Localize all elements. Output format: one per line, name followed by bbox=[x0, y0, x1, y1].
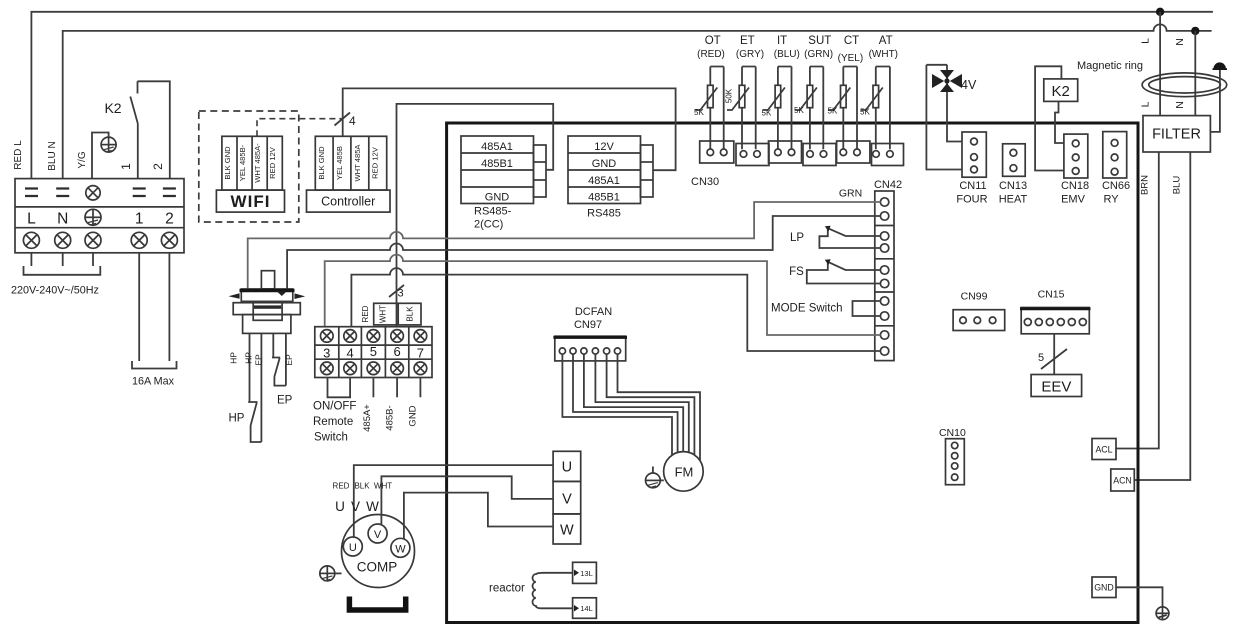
connector CN30 housing bbox=[700, 141, 904, 166]
wire BLU (FILTER to ACN) bbox=[1134, 152, 1190, 480]
thermistor OT 5K bbox=[694, 67, 724, 150]
svg-text:L: L bbox=[1140, 38, 1152, 44]
wire RED L (top left to top right) bbox=[31, 12, 1213, 179]
wire terminal 2 down bbox=[168, 253, 170, 361]
thermistor CT 5K bbox=[828, 67, 858, 150]
svg-text:5K: 5K bbox=[794, 106, 804, 115]
earth symbol (COMP) bbox=[320, 566, 342, 581]
svg-text:3: 3 bbox=[323, 345, 330, 360]
svg-text:2(CC): 2(CC) bbox=[474, 219, 503, 231]
terminal strip screws bottom bbox=[321, 362, 427, 375]
wire V to compressor bbox=[381, 476, 553, 525]
svg-text:GND: GND bbox=[485, 191, 510, 203]
svg-text:12V: 12V bbox=[594, 141, 614, 153]
svg-text:SUT: SUT bbox=[808, 35, 831, 47]
svg-text:CN99: CN99 bbox=[961, 291, 988, 303]
svg-text:220V-240V~/50Hz: 220V-240V~/50Hz bbox=[11, 285, 99, 297]
terminal V box bbox=[553, 481, 581, 514]
switch EP bbox=[272, 333, 293, 406]
fan wires CN97 to FM bbox=[562, 354, 700, 461]
wire CN15 to EEV bbox=[1053, 334, 1055, 375]
svg-text:HP: HP bbox=[244, 352, 254, 364]
svg-text:EP: EP bbox=[284, 354, 294, 366]
thermistor AT 5K bbox=[860, 67, 890, 150]
pressure switch cap bbox=[240, 289, 295, 301]
sensor labels row bbox=[705, 35, 893, 47]
svg-text:N: N bbox=[57, 211, 68, 228]
svg-text:BLU: BLU bbox=[1172, 176, 1183, 195]
svg-text:RY: RY bbox=[1103, 194, 1119, 206]
svg-text:BLU N: BLU N bbox=[47, 141, 58, 170]
svg-text:CN97: CN97 bbox=[574, 319, 602, 331]
remote terminal strip 3-7 bbox=[315, 327, 432, 378]
svg-text:IT: IT bbox=[777, 35, 787, 47]
svg-text:CN30: CN30 bbox=[691, 176, 719, 188]
connector CN66 bbox=[1102, 132, 1130, 206]
svg-text:Y/G: Y/G bbox=[77, 151, 88, 168]
svg-text:5: 5 bbox=[370, 344, 377, 359]
svg-text:485A1: 485A1 bbox=[588, 175, 620, 187]
pressure switch inner plates bbox=[253, 302, 282, 320]
label RED BLK WHT bbox=[333, 482, 393, 491]
svg-text:Magnetic ring: Magnetic ring bbox=[1077, 60, 1143, 72]
svg-text:RED L: RED L bbox=[13, 140, 24, 170]
svg-text:5K: 5K bbox=[694, 108, 704, 117]
svg-text:RED 12V: RED 12V bbox=[371, 146, 380, 179]
stub wires 485A+ 485B- GND bbox=[373, 378, 420, 398]
svg-text:RED: RED bbox=[333, 482, 350, 491]
svg-text:RS485-: RS485- bbox=[474, 206, 512, 218]
thermistor SUT 5K bbox=[794, 67, 823, 150]
pressure switch body nub bbox=[261, 271, 274, 289]
svg-text:ON/OFF: ON/OFF bbox=[313, 401, 356, 413]
svg-text:EP: EP bbox=[277, 395, 293, 407]
svg-text:MODE Switch: MODE Switch bbox=[771, 303, 843, 315]
svg-text:YEL 485B-: YEL 485B- bbox=[238, 144, 247, 181]
svg-text:485A+: 485A+ bbox=[362, 404, 373, 432]
svg-text:HEAT: HEAT bbox=[999, 194, 1028, 206]
wire BLU N (second top wire with hop over L drop) bbox=[63, 24, 1212, 178]
svg-text:CN11: CN11 bbox=[959, 180, 986, 192]
svg-text:BLK GND: BLK GND bbox=[317, 146, 326, 180]
16A bracket bbox=[132, 361, 177, 369]
wire L drop through magnetic ring to FILTER bbox=[1159, 12, 1161, 116]
wire U to compressor bbox=[354, 465, 553, 537]
terminal block X1 outline bbox=[15, 179, 184, 253]
terminal block clamp bars bbox=[25, 189, 176, 197]
compressor COMP bbox=[342, 515, 415, 588]
thermistor IT 5K bbox=[762, 67, 792, 150]
supply stub wires L N Y/G bbox=[31, 253, 93, 266]
wire K2 loop to terminal 2 bbox=[138, 81, 170, 178]
ON/OFF remote switch jumper terminals 3-4 bbox=[328, 378, 351, 398]
Controller label box bbox=[307, 190, 391, 212]
reactor coil bbox=[532, 573, 572, 609]
wire color tag box RED WHT BLK bbox=[361, 303, 421, 325]
svg-text:5K: 5K bbox=[762, 109, 772, 118]
connector CN42 pins bbox=[880, 198, 888, 355]
svg-text:485B1: 485B1 bbox=[481, 158, 513, 170]
svg-text:50K: 50K bbox=[725, 88, 734, 103]
WIFI label box bbox=[216, 190, 284, 212]
svg-text:OT: OT bbox=[705, 35, 721, 47]
svg-text:U: U bbox=[349, 542, 357, 554]
wire terminal 1 down bbox=[138, 253, 140, 361]
switch LP bbox=[790, 226, 881, 248]
FILTER box U3 bbox=[1143, 116, 1210, 152]
earth symbol (block middle row) bbox=[85, 209, 101, 225]
connector CN42 housing bbox=[875, 191, 894, 361]
terminal Y/G screw (top row) bbox=[86, 186, 100, 200]
svg-text:RS485: RS485 bbox=[587, 208, 621, 220]
svg-text:EEV: EEV bbox=[1041, 379, 1071, 396]
wire K2 to CN18 bbox=[1055, 101, 1064, 143]
svg-text:485B1: 485B1 bbox=[588, 191, 620, 203]
svg-text:CN18: CN18 bbox=[1061, 180, 1089, 192]
wire W to compressor bbox=[404, 493, 553, 539]
svg-text:BLK: BLK bbox=[354, 482, 370, 491]
switch HP (high pressure) bbox=[229, 333, 262, 442]
svg-text:V: V bbox=[351, 499, 360, 514]
svg-text:Controller: Controller bbox=[321, 195, 375, 209]
svg-text:WHT 485A: WHT 485A bbox=[353, 144, 362, 182]
svg-text:L: L bbox=[27, 211, 36, 228]
svg-text:K2: K2 bbox=[104, 100, 121, 116]
junction dot node N bbox=[1191, 27, 1199, 35]
svg-text:W: W bbox=[560, 523, 574, 539]
main control board outline bbox=[447, 123, 1138, 623]
label U V W bbox=[335, 499, 379, 514]
svg-text:14L: 14L bbox=[580, 604, 593, 613]
cable (3 core) terminal6 to RS485-2 bbox=[397, 104, 554, 327]
svg-text:1: 1 bbox=[135, 211, 144, 228]
wire CN42 pin9 to terminal 3 (with hop) bbox=[325, 255, 881, 335]
cable slash 5 bbox=[1038, 349, 1067, 369]
rotated wire labels HP HP EP EP bbox=[229, 352, 294, 366]
magnetic ring bbox=[1142, 73, 1227, 97]
svg-text:RED: RED bbox=[361, 305, 370, 322]
wire GRN CN42 pin1 to pressure switch (with hop) bbox=[248, 202, 881, 290]
svg-text:GND: GND bbox=[592, 158, 617, 170]
svg-text:CN10: CN10 bbox=[939, 427, 966, 439]
label RS485-2(CC) bbox=[474, 206, 512, 231]
cable slash 3 bbox=[389, 285, 404, 300]
connector CN18 bbox=[1061, 134, 1089, 205]
svg-text:GRN: GRN bbox=[839, 188, 862, 200]
compressor mounting bracket bbox=[349, 597, 405, 611]
wire CN42 pin2 to pressure switch (with hop) bbox=[287, 216, 880, 290]
svg-text:7: 7 bbox=[417, 345, 424, 360]
connector CN30 pins bbox=[707, 149, 893, 157]
connector CN97 pins bbox=[559, 348, 620, 354]
svg-text:GND: GND bbox=[1094, 583, 1114, 593]
svg-text:(GRN): (GRN) bbox=[804, 49, 833, 60]
junction dot node L bbox=[1156, 8, 1164, 16]
chassis earth symbol (top right) bbox=[1213, 62, 1228, 69]
thermistor ET 50K bbox=[725, 67, 756, 150]
connector CN99 bbox=[953, 291, 1005, 331]
svg-text:N: N bbox=[1174, 101, 1186, 109]
terminal 14L bbox=[573, 598, 597, 619]
sensor color labels bbox=[697, 49, 898, 64]
dashed wire WIFI to controller cable bbox=[257, 119, 342, 137]
controller cable (4 core) to RS485 bbox=[343, 88, 676, 170]
svg-text:2: 2 bbox=[165, 211, 174, 228]
svg-text:(WHT): (WHT) bbox=[869, 49, 898, 60]
terminal GND box bbox=[1092, 577, 1116, 598]
svg-text:CN13: CN13 bbox=[999, 180, 1027, 192]
svg-text:485B-: 485B- bbox=[385, 405, 396, 430]
svg-text:(GRY): (GRY) bbox=[736, 49, 764, 60]
svg-text:FS: FS bbox=[789, 266, 804, 278]
svg-text:(RED): (RED) bbox=[697, 49, 725, 60]
svg-text:U: U bbox=[335, 499, 345, 514]
svg-text:(BLU): (BLU) bbox=[774, 49, 800, 60]
terminal ACL bbox=[1092, 439, 1116, 460]
connector CN97 housing bbox=[553, 336, 627, 361]
svg-text:BLK: BLK bbox=[406, 306, 415, 322]
svg-text:L: L bbox=[1140, 101, 1152, 107]
connector CN15 bbox=[1020, 289, 1091, 334]
terminal ACN bbox=[1111, 469, 1135, 491]
relay K2 coil box bbox=[1035, 66, 1078, 170]
svg-text:EP: EP bbox=[253, 354, 263, 366]
svg-text:FILTER: FILTER bbox=[1152, 127, 1201, 143]
MODE Switch jumper bbox=[771, 301, 881, 316]
chassis earth (top right) wire from FILTER bbox=[1210, 69, 1220, 132]
supply bracket bbox=[24, 266, 101, 275]
wire N drop through magnetic ring to FILTER bbox=[1194, 31, 1196, 116]
svg-text:3: 3 bbox=[398, 288, 404, 300]
wire BRN (FILTER to ACL) bbox=[1116, 152, 1159, 449]
svg-text:HP: HP bbox=[229, 413, 245, 425]
svg-text:K2: K2 bbox=[1052, 83, 1070, 100]
cable slash 4 bbox=[335, 113, 357, 129]
svg-text:FOUR: FOUR bbox=[956, 194, 987, 206]
RS485-2(CC) pin header bbox=[534, 145, 547, 197]
wire GND to earth bbox=[1116, 587, 1163, 607]
svg-text:4: 4 bbox=[346, 345, 353, 360]
svg-text:ACL: ACL bbox=[1095, 445, 1112, 455]
svg-text:WIFI: WIFI bbox=[231, 192, 271, 211]
terminal numbers 3 4 5 6 7 bbox=[323, 344, 424, 360]
svg-text:reactor: reactor bbox=[489, 583, 525, 595]
terminal strip screws top bbox=[321, 330, 427, 343]
protective earth symbol (Y/G) bbox=[101, 137, 116, 152]
svg-text:ACN: ACN bbox=[1113, 476, 1132, 486]
svg-text:Remote: Remote bbox=[313, 416, 353, 428]
wire Y/G to earth bbox=[92, 133, 109, 179]
svg-text:16A Max: 16A Max bbox=[132, 376, 175, 388]
svg-text:AT: AT bbox=[879, 35, 893, 47]
fan motor FM bbox=[664, 452, 704, 492]
svg-text:U: U bbox=[562, 460, 572, 476]
terminal 13L bbox=[573, 562, 597, 583]
label ON/OFF Remote Switch bbox=[313, 401, 356, 444]
svg-text:V: V bbox=[562, 492, 572, 508]
svg-text:W: W bbox=[395, 543, 406, 555]
RS485-2(CC) connector block bbox=[461, 136, 534, 204]
svg-text:DCFAN: DCFAN bbox=[575, 306, 612, 318]
svg-text:2: 2 bbox=[151, 163, 165, 170]
svg-text:CN42: CN42 bbox=[874, 179, 902, 191]
svg-text:FM: FM bbox=[675, 465, 694, 480]
WIFI connector pins bbox=[222, 136, 282, 190]
switch FS bbox=[789, 259, 880, 283]
terminal U box bbox=[553, 451, 581, 481]
svg-text:485A1: 485A1 bbox=[481, 141, 513, 153]
wire CN42 pin10 to terminal 4 (with hop) bbox=[351, 268, 880, 351]
svg-text:5K: 5K bbox=[828, 107, 838, 116]
svg-text:WHT 485A-: WHT 485A- bbox=[253, 143, 262, 183]
pressure switch middle band bbox=[233, 303, 300, 315]
svg-text:RED 12V: RED 12V bbox=[268, 146, 277, 179]
svg-text:ET: ET bbox=[740, 35, 755, 47]
svg-text:COMP: COMP bbox=[357, 560, 398, 575]
svg-text:V: V bbox=[374, 529, 382, 541]
terminal block screws (bottom row) bbox=[23, 232, 177, 248]
svg-text:W: W bbox=[366, 499, 379, 514]
svg-text:CT: CT bbox=[844, 35, 859, 47]
WIFI module dashed enclosure bbox=[199, 111, 299, 222]
svg-text:LP: LP bbox=[790, 232, 804, 244]
label DCFAN CN97 bbox=[574, 306, 612, 331]
svg-text:WHT: WHT bbox=[374, 482, 392, 491]
svg-text:N: N bbox=[1174, 38, 1186, 46]
svg-text:4V: 4V bbox=[961, 78, 977, 92]
svg-text:(YEL): (YEL) bbox=[838, 53, 864, 64]
svg-text:BLK GND: BLK GND bbox=[223, 146, 232, 180]
Controller connector pins bbox=[315, 136, 386, 190]
pressure switch lower body bbox=[243, 315, 291, 334]
svg-text:6: 6 bbox=[393, 344, 400, 359]
connector CN10 bbox=[939, 427, 966, 485]
4V four-way valve coil bbox=[926, 65, 977, 170]
EEV box bbox=[1031, 375, 1082, 397]
connector CN13 bbox=[999, 144, 1028, 206]
relay contact K2 (mains) bbox=[104, 81, 137, 178]
pressure switch side arrows bbox=[229, 293, 306, 299]
connector CN11 bbox=[956, 132, 987, 206]
svg-text:CN66: CN66 bbox=[1102, 180, 1130, 192]
svg-text:YEL 485B: YEL 485B bbox=[335, 146, 344, 180]
svg-text:CN15: CN15 bbox=[1038, 289, 1065, 301]
svg-text:BRN: BRN bbox=[1140, 175, 1151, 195]
svg-text:4: 4 bbox=[349, 114, 356, 128]
svg-text:WHT: WHT bbox=[379, 305, 388, 323]
terminal W box bbox=[553, 514, 581, 544]
svg-text:HP: HP bbox=[229, 352, 239, 364]
svg-text:5: 5 bbox=[1038, 352, 1044, 364]
earth symbol (bottom right) bbox=[1156, 607, 1169, 620]
svg-text:Switch: Switch bbox=[314, 432, 348, 444]
svg-text:5K: 5K bbox=[860, 108, 870, 117]
svg-text:EMV: EMV bbox=[1061, 194, 1086, 206]
svg-text:1: 1 bbox=[119, 163, 133, 170]
svg-text:13L: 13L bbox=[580, 569, 593, 578]
svg-text:GND: GND bbox=[407, 405, 418, 426]
RS485 pin header bbox=[641, 145, 654, 197]
RS485 connector block bbox=[568, 136, 641, 204]
earth symbol (FM) bbox=[646, 467, 664, 488]
